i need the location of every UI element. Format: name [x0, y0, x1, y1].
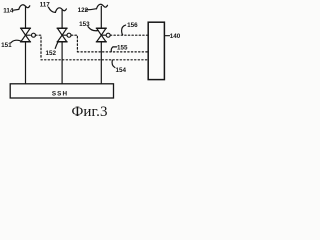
svg-text:152: 152	[46, 50, 57, 57]
label 122	[86, 9, 97, 10]
svg-text:SSH: SSH	[52, 91, 68, 98]
control line 154 (dashed, valve 151 to box 140)	[35, 35, 41, 59]
label 154	[112, 60, 115, 67]
wire antenna 122 to valve 153	[100, 6, 102, 28]
valve V2 (152)	[57, 28, 71, 41]
svg-text:Фиг.3: Фиг.3	[71, 104, 107, 120]
wire valve 152 to SSH	[61, 42, 63, 84]
svg-text:151: 151	[1, 42, 12, 49]
control line 156 (dotted, valve 153 to box 140)	[110, 34, 147, 36]
svg-text:156: 156	[127, 22, 138, 29]
svg-text:154: 154	[116, 67, 127, 74]
label 156	[122, 25, 126, 35]
valve V3 (153)	[97, 28, 111, 41]
svg-text:140: 140	[170, 33, 181, 40]
antenna 114	[19, 5, 30, 10]
svg-text:153: 153	[79, 21, 90, 28]
wire antenna 114 to valve 151	[25, 7, 27, 28]
control line 155 (dashed, valve 152 to box 140)	[71, 35, 77, 51]
wire valve 151 to SSH	[25, 42, 27, 84]
label 117	[48, 7, 55, 12]
svg-text:117: 117	[40, 1, 51, 8]
box 140 (controller)	[148, 22, 164, 79]
svg-text:155: 155	[117, 44, 128, 51]
svg-text:114: 114	[3, 8, 14, 15]
label 140	[165, 35, 169, 37]
label 114	[13, 8, 19, 11]
label 152	[55, 42, 58, 48]
label 153	[88, 27, 98, 31]
valve V1 (151)	[21, 28, 36, 41]
antenna 117	[55, 8, 66, 13]
antenna 122	[97, 4, 108, 9]
wire antenna 117 to valve 152	[61, 10, 63, 28]
box SSH	[10, 84, 113, 98]
label 155	[111, 47, 113, 52]
wire valve 153 to SSH	[100, 42, 102, 84]
svg-text:122: 122	[78, 7, 89, 14]
label 151	[11, 40, 21, 43]
